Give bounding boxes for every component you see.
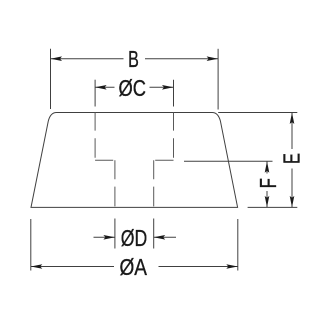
- arrowhead A left: [31, 264, 43, 269]
- arrowhead E down: [290, 196, 295, 208]
- arrowhead C left (pointing left): [95, 85, 107, 90]
- dimension line F bottom segment: [266, 191, 268, 207]
- extension line B right: [217, 49, 219, 110]
- arrowhead D right (outside pointing left): [154, 235, 166, 240]
- extension line A left: [30, 219, 32, 271]
- arrowhead E up: [290, 113, 295, 125]
- hidden counterbore step right: [154, 159, 174, 161]
- svg-text:ØD: ØD: [121, 225, 147, 251]
- extension line C left: [94, 80, 96, 107]
- body outline: [31, 113, 238, 208]
- svg-text:F: F: [257, 178, 282, 188]
- arrowhead B left: [51, 56, 63, 61]
- arrowhead D left (outside pointing right): [103, 235, 115, 240]
- dimension line C left segment: [95, 86, 114, 88]
- extension line top (for E): [218, 112, 297, 114]
- svg-text:ØA: ØA: [119, 254, 147, 280]
- hidden recess counterbore left wall (dia C): [94, 113, 96, 159]
- extension line B left: [50, 49, 52, 109]
- dimension line B right segment: [145, 58, 218, 60]
- dimension line C right segment: [150, 86, 174, 88]
- svg-text:ØC: ØC: [118, 76, 145, 102]
- arrowhead C right (pointing right): [162, 85, 174, 90]
- hidden hole left wall (dia D): [114, 160, 116, 207]
- arrowhead F up: [265, 161, 270, 173]
- dimension line B left segment: [51, 58, 124, 60]
- svg-text:B: B: [128, 48, 139, 73]
- extension line step (for F): [184, 160, 273, 162]
- dimension line F top segment: [266, 161, 268, 173]
- extension line A right: [237, 219, 239, 271]
- extension line C right: [173, 80, 175, 107]
- svg-text:E: E: [280, 153, 305, 164]
- hidden hole right wall (dia D): [153, 160, 155, 207]
- dimension line E bottom segment: [291, 169, 293, 208]
- hidden counterbore step left: [95, 159, 115, 161]
- dimension line D left tail: [94, 236, 115, 238]
- dimension line A right segment: [159, 266, 238, 268]
- extension line D right: [153, 219, 155, 249]
- dimension line E top segment: [291, 113, 293, 150]
- extension line D left: [114, 219, 116, 249]
- dimension line A left segment: [31, 266, 114, 268]
- dimension line D right tail: [154, 236, 176, 238]
- arrowhead F down: [265, 196, 270, 208]
- hidden recess counterbore right wall (dia C): [173, 113, 175, 159]
- extension line bottom (for E and F): [248, 206, 298, 208]
- arrowhead B right: [207, 56, 219, 61]
- arrowhead A right: [226, 264, 238, 269]
